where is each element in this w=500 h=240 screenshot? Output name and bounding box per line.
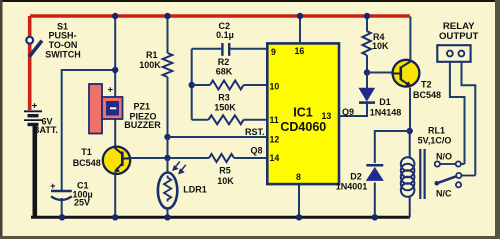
battery BATT 6V <box>24 111 42 124</box>
IC1 CD4060 <box>267 43 339 184</box>
wire T2 base <box>367 72 392 74</box>
svg-text:PZ1: PZ1 <box>134 102 151 112</box>
svg-text:Q8: Q8 <box>250 146 262 156</box>
relay output box <box>437 45 470 62</box>
wire node to R5 <box>168 157 210 159</box>
svg-text:11: 11 <box>270 115 279 125</box>
resistor R3 150K <box>192 115 267 124</box>
wire output right to pole <box>462 62 476 176</box>
svg-text:N/C: N/C <box>436 189 452 199</box>
node pin16 on rail <box>297 13 303 19</box>
node buzzer on +V rail <box>112 13 118 19</box>
svg-text:16: 16 <box>295 46 305 56</box>
svg-text:1N4148: 1N4148 <box>370 108 402 118</box>
svg-text:68K: 68K <box>216 67 233 77</box>
svg-text:10: 10 <box>270 81 280 91</box>
LDR light arrows <box>173 162 186 174</box>
svg-text:OUTPUT: OUTPUT <box>439 31 479 42</box>
svg-text:R2: R2 <box>218 57 230 67</box>
wire LDR to ground <box>167 158 169 217</box>
diode D2 1N4001 <box>366 165 383 217</box>
wire C1 to ground <box>61 198 63 217</box>
svg-text:LDR1: LDR1 <box>183 184 207 194</box>
svg-text:R1: R1 <box>146 50 158 60</box>
svg-text:100K: 100K <box>139 60 161 70</box>
wire R4 to D1/T2 node <box>366 55 368 73</box>
transistor T1 BC548 <box>103 147 131 174</box>
svg-text:IC1: IC1 <box>293 106 313 120</box>
node R2 tap <box>189 82 195 88</box>
relay armature pole <box>435 173 476 186</box>
svg-text:Q9: Q9 <box>342 107 354 117</box>
battery negative wire <box>32 126 37 217</box>
relay contact N/C <box>456 182 461 187</box>
svg-text:T2: T2 <box>421 80 432 90</box>
svg-text:BC548: BC548 <box>73 158 101 168</box>
svg-text:14: 14 <box>270 153 280 163</box>
label S1 PUSH-TO-ON SWITCH <box>45 21 81 59</box>
wire output left to N/O <box>450 62 465 164</box>
LDR1 <box>158 173 177 209</box>
svg-text:BUZZER: BUZZER <box>124 120 161 130</box>
svg-text:+: + <box>50 181 56 192</box>
svg-text:+: + <box>32 101 38 112</box>
frame border left <box>0 0 3 239</box>
capacitor C2 0.1u <box>192 43 267 56</box>
wire R1 branch from rail <box>167 16 169 53</box>
wire C1 branch <box>62 70 115 191</box>
svg-text:TO-ON: TO-ON <box>49 40 78 50</box>
wire pin13 Q9 <box>339 103 367 116</box>
node T1 base/R5/LDR junction <box>164 155 170 161</box>
svg-text:10K: 10K <box>217 176 234 186</box>
diode D1 1N4148 <box>359 73 375 103</box>
switch S1 <box>26 37 42 57</box>
svg-text:RST.: RST. <box>245 127 265 137</box>
wire pin8 to ground <box>298 185 300 217</box>
node D1/T2 base <box>364 69 370 75</box>
wire C2/R2/R3 left vertical <box>191 49 193 120</box>
frame border right <box>495 0 500 239</box>
svg-text:RL1: RL1 <box>428 126 445 136</box>
relay contact N/O <box>435 161 465 166</box>
svg-text:5V,1C/O: 5V,1C/O <box>418 136 452 146</box>
svg-text:CD4060: CD4060 <box>280 120 326 134</box>
node R1 on +V rail <box>164 13 170 19</box>
relay core bars <box>420 149 424 199</box>
resistor R4 10K <box>362 31 370 55</box>
resistor R5 10K <box>209 154 234 162</box>
svg-text:12: 12 <box>270 135 280 145</box>
frame border bottom <box>0 236 500 239</box>
wire D2 branch <box>375 131 410 163</box>
ground rail <box>31 216 410 219</box>
wire pin16 to rail <box>299 16 301 43</box>
relay RL1 coil <box>401 131 415 217</box>
svg-text:R5: R5 <box>219 166 231 176</box>
wire RST to pin12 <box>168 136 267 138</box>
node relay/D2 junction <box>407 128 413 134</box>
svg-text:T1: T1 <box>81 147 92 157</box>
wire T2 collector to red rail end <box>409 17 411 61</box>
node RST junction <box>164 134 170 140</box>
svg-text:PUSH-: PUSH- <box>48 30 76 40</box>
wire R5 to pin14 <box>234 157 267 159</box>
svg-text:10K: 10K <box>372 41 389 51</box>
wire R1 to RST node <box>167 77 169 137</box>
wire RST node down to base node <box>167 137 169 158</box>
wire +V red rail <box>30 16 410 110</box>
svg-text:25V: 25V <box>74 198 90 208</box>
svg-text:SWITCH: SWITCH <box>45 49 81 59</box>
ground rail junction dots <box>59 214 378 220</box>
transistor T2 BC548 <box>391 60 419 87</box>
piezo buzzer PZ1 <box>89 84 123 134</box>
resistor R2 68K <box>192 81 267 90</box>
svg-text:0.1µ: 0.1µ <box>216 30 234 40</box>
svg-text:BC548: BC548 <box>413 90 441 100</box>
svg-text:9: 9 <box>271 47 276 57</box>
svg-text:+: + <box>108 85 114 96</box>
svg-text:8: 8 <box>296 172 301 182</box>
wire R4 branch <box>366 16 368 31</box>
node buzzer/C1 junction <box>112 67 118 73</box>
frame border top <box>0 0 500 2</box>
wire T2 emitter down <box>409 88 411 132</box>
wire T1 emitter to ground <box>114 175 116 217</box>
wire T1 base <box>131 157 168 159</box>
svg-text:N/O: N/O <box>436 152 452 162</box>
wire buzzer branch from rail <box>114 16 116 97</box>
svg-text:R3: R3 <box>218 93 230 103</box>
resistor R1 100K <box>163 53 173 77</box>
svg-text:150K: 150K <box>214 103 236 113</box>
wire buzzer to T1 collector <box>114 119 116 147</box>
svg-text:1N4001: 1N4001 <box>336 182 368 192</box>
svg-text:D2: D2 <box>350 172 362 182</box>
svg-text:BATT.: BATT. <box>33 125 58 135</box>
node R4 on rail <box>364 13 370 19</box>
label PZ1 PIEZO BUZZER <box>124 102 161 131</box>
capacitor C1 <box>51 191 72 200</box>
svg-text:D1: D1 <box>379 97 391 107</box>
